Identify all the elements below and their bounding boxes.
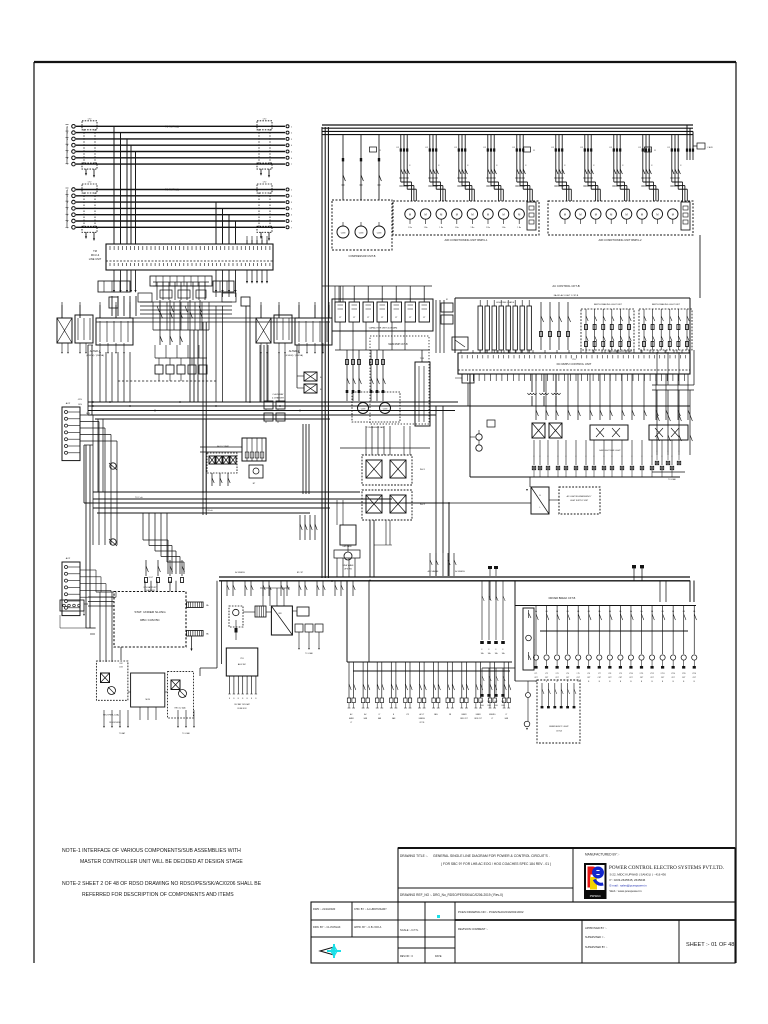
- svg-text:F: F: [547, 456, 548, 458]
- svg-text:F: F: [621, 456, 622, 458]
- svg-text:SUPERVISED I :-: SUPERVISED I :-: [585, 936, 605, 939]
- svg-text:ITU: ITU: [572, 359, 576, 361]
- svg-text:4: 4: [291, 208, 293, 210]
- svg-text:NA: NA: [206, 604, 209, 607]
- svg-text:FAN: FAN: [505, 717, 509, 720]
- svg-text:LT: LT: [491, 718, 493, 720]
- svg-text:PCES DRAWING NO :- PCES/SLD/: PCES DRAWING NO :- PCES/SLD/2019/2021/00…: [458, 910, 524, 914]
- svg-text:6: 6: [291, 221, 293, 223]
- svg-text:REV.NO : 0: REV.NO : 0: [400, 955, 413, 958]
- svg-text:LT2: LT2: [263, 118, 267, 120]
- svg-text:ALTER-2: ALTER-2: [289, 349, 300, 353]
- svg-text:F: F: [539, 456, 540, 458]
- svg-text:B: B: [229, 698, 230, 700]
- svg-text:B: B: [233, 698, 234, 700]
- svg-text:7: 7: [67, 164, 69, 166]
- svg-text:MCB: MCB: [145, 699, 150, 701]
- svg-text:16A: 16A: [502, 652, 506, 655]
- svg-text:AC CONTROL CKT-B: AC CONTROL CKT-B: [552, 284, 579, 288]
- svg-text:MCU &: MCU &: [91, 253, 100, 257]
- svg-text:ITU: ITU: [240, 658, 244, 660]
- svg-text:K1: K1: [397, 147, 400, 149]
- svg-text:LT13: LT13: [661, 673, 665, 675]
- svg-text:( FOR SBC 9? FOR LHB AC EOG /: ( FOR SBC 9? FOR LHB AC EOG / HOG COACHE…: [441, 862, 551, 866]
- svg-text:LT16: LT16: [692, 673, 696, 675]
- svg-text:B: B: [539, 495, 541, 497]
- svg-text:AC: AC: [350, 713, 353, 716]
- svg-text:110V: 110V: [78, 404, 83, 406]
- svg-text:DWN :- 21/10/2020: DWN :- 21/10/2020: [313, 907, 336, 911]
- svg-text:BRK CKT: BRK CKT: [460, 718, 467, 720]
- svg-text:LT11: LT11: [640, 673, 644, 675]
- svg-text:SUPERVISED BY :-: SUPERVISED BY :-: [585, 946, 607, 949]
- svg-text:LT12: LT12: [650, 673, 654, 675]
- svg-text:LIGHTING LOADS: LIGHTING LOADS: [496, 301, 515, 304]
- svg-text:M: M: [656, 213, 658, 217]
- svg-text:TO LOAD: TO LOAD: [182, 732, 191, 735]
- svg-text:EMERGENCY LIGHT: EMERGENCY LIGHT: [549, 726, 569, 728]
- svg-text:F: F: [622, 165, 624, 167]
- svg-text:AC CHARGE: AC CHARGE: [428, 570, 439, 573]
- svg-text:M: M: [487, 213, 489, 217]
- svg-text:6A: 6A: [619, 610, 622, 613]
- svg-text:CKT: CKT: [629, 677, 632, 679]
- svg-text:DRIVER BREAK CKT-B: DRIVER BREAK CKT-B: [549, 597, 576, 600]
- svg-text:F: F: [611, 456, 612, 458]
- svg-text:F: F: [603, 456, 604, 458]
- svg-text:AC: AC: [364, 713, 367, 716]
- svg-text:FN: FN: [449, 714, 452, 716]
- svg-text:16A: 16A: [488, 652, 492, 655]
- svg-text:6: 6: [291, 158, 293, 160]
- svg-text:F: F: [668, 451, 669, 453]
- svg-text:NOTE-2 SHEET 2 OF 48 OF RDSO: NOTE-2 SHEET 2 OF 48 OF RDSO DRAWING NO …: [62, 881, 262, 887]
- svg-text:DATE: DATE: [435, 955, 442, 958]
- svg-text:LT10: LT10: [629, 673, 633, 675]
- svg-text:LT6: LT6: [587, 673, 590, 675]
- svg-text:CKT: CKT: [545, 677, 548, 679]
- svg-text:MASTER CONTROLLER UNIT WILL B: MASTER CONTROLLER UNIT WILL BE DECIDED A…: [80, 859, 243, 865]
- svg-text:K1: K1: [484, 147, 487, 149]
- svg-text:LINE UNIT: LINE UNIT: [89, 257, 102, 261]
- svg-text:7: 7: [67, 227, 69, 229]
- svg-text:B2: B2: [320, 389, 323, 391]
- svg-text:CKT: CKT: [598, 677, 601, 679]
- svg-text:4: 4: [291, 145, 293, 147]
- svg-text:16A: 16A: [481, 652, 485, 655]
- svg-text:110V: 110V: [119, 667, 124, 669]
- svg-text:CT: CT: [409, 317, 412, 319]
- svg-text:APPROVED BY :-: APPROVED BY :-: [585, 926, 607, 930]
- svg-text:NOTE-1 INTERFACE OF VARIOUS CO: NOTE-1 INTERFACE OF VARIOUS COMPONENTS/S…: [62, 848, 241, 854]
- svg-text:2: 2: [291, 196, 293, 198]
- svg-text:3: 3: [291, 202, 293, 204]
- svg-text:INV: INV: [278, 613, 282, 615]
- svg-text:Web : www.pcespower.in: Web : www.pcespower.in: [610, 889, 642, 893]
- svg-text:B: B: [662, 681, 664, 683]
- svg-text:K1: K1: [513, 147, 516, 149]
- svg-text:F: F: [671, 456, 672, 458]
- svg-text:M: M: [503, 213, 505, 217]
- svg-text:LT1: LT1: [535, 673, 538, 675]
- svg-text:B: B: [393, 714, 395, 716]
- svg-text:FA+B2+AC LIGHT 1 CKT-B: FA+B2+AC LIGHT 1 CKT-B: [554, 294, 579, 297]
- svg-text:6A: 6A: [535, 610, 538, 613]
- svg-text:C1: C1: [379, 150, 381, 152]
- svg-text:LT14: LT14: [671, 673, 675, 675]
- svg-text:INV-1: INV-1: [420, 469, 426, 471]
- svg-text:CDM: CDM: [361, 409, 366, 411]
- svg-text:2: 2: [291, 133, 293, 135]
- svg-text:F: F: [657, 451, 658, 453]
- svg-text:S1: S1: [446, 299, 448, 301]
- svg-text:TM: TM: [93, 249, 97, 253]
- svg-text:24V: 24V: [119, 663, 123, 665]
- svg-text:M: M: [471, 213, 473, 217]
- svg-text:B2 CKT: B2 CKT: [297, 572, 304, 574]
- svg-text:CHD. BY :- A.LURDHUSAMY: CHD. BY :- A.LURDHUSAMY: [354, 908, 387, 911]
- svg-text:TO RMPU(1): TO RMPU(1): [165, 189, 179, 192]
- svg-text:NA: NA: [206, 633, 209, 636]
- svg-text:TO LOAD: TO LOAD: [305, 652, 314, 655]
- svg-text:CHG: CHG: [494, 705, 498, 707]
- svg-text:K1: K1: [552, 147, 555, 149]
- svg-text:ACP: ACP: [66, 402, 71, 405]
- svg-text:F: F: [564, 165, 566, 167]
- svg-text:F: F: [496, 165, 498, 167]
- svg-text:LT3: LT3: [406, 714, 409, 716]
- svg-text:F: F: [533, 456, 534, 458]
- svg-text:ACP: ACP: [66, 557, 71, 560]
- svg-text:AUX BC: AUX BC: [238, 663, 247, 666]
- svg-text:CAPACITOR UNIT (10KVAR): CAPACITOR UNIT (10KVAR): [369, 327, 398, 330]
- svg-text:GENERAL SINGLE LINE DIAGRAM FO: GENERAL SINGLE LINE DIAGRAM FOR POWER & …: [433, 854, 550, 858]
- svg-text:F: F: [496, 649, 497, 651]
- svg-text:B: B: [557, 681, 559, 683]
- svg-text:6A: 6A: [577, 610, 580, 613]
- svg-text:B: B: [630, 681, 632, 683]
- svg-text:POWER CONTROL ELECTRO SYSTEMS: POWER CONTROL ELECTRO SYSTEMS PVT.LTD.: [609, 865, 724, 871]
- svg-text:B: B: [694, 681, 696, 683]
- svg-text:K1: K1: [455, 147, 458, 149]
- svg-text:RECTIFIER-1 (5A): RECTIFIER-1 (5A): [103, 714, 119, 717]
- svg-text:AC LT: AC LT: [419, 713, 424, 716]
- svg-text:PSPWAC: PSPWAC: [590, 894, 601, 898]
- svg-text:CHG: CHG: [487, 705, 491, 707]
- svg-text:K1: K1: [426, 147, 429, 149]
- svg-text:K1: K1: [581, 147, 584, 149]
- svg-text:APPD. BY :- C.B.J DO.A: APPD. BY :- C.B.J DO.A: [354, 926, 382, 929]
- svg-text:F: F: [651, 456, 652, 458]
- svg-text:CKT: CKT: [577, 677, 580, 679]
- svg-text:CKT: CKT: [534, 677, 537, 679]
- svg-text:5: 5: [291, 215, 293, 217]
- svg-text:CDM: CDM: [383, 409, 388, 411]
- svg-text:K B T: K B T: [149, 577, 154, 579]
- svg-text:CDM: CDM: [359, 233, 364, 235]
- svg-text:B: B: [546, 681, 548, 683]
- svg-text:F: F: [489, 649, 490, 651]
- svg-text:REFERRED FOR DESCRIPTION OF C: REFERRED FOR DESCRIPTION OF COMPONENTS A…: [82, 892, 234, 898]
- svg-text:M: M: [672, 213, 674, 217]
- svg-text:CKT: CKT: [671, 677, 674, 679]
- svg-text:CT: CT: [381, 317, 384, 319]
- svg-text:F: F: [680, 165, 682, 167]
- svg-text:CKT: CKT: [608, 677, 611, 679]
- svg-text:B: B: [673, 681, 675, 683]
- svg-text:7: 7: [291, 227, 293, 229]
- svg-text:1: 1: [291, 190, 293, 192]
- svg-text:M: M: [626, 213, 628, 217]
- svg-text:RBC CUM BC: RBC CUM BC: [140, 618, 160, 622]
- svg-text:B: B: [609, 681, 611, 683]
- svg-text:CDM: CDM: [341, 233, 346, 235]
- svg-text:6A: 6A: [662, 610, 665, 613]
- svg-text:LT8: LT8: [608, 673, 611, 675]
- svg-text:(4.5KW) / (25KVA): (4.5KW) / (25KVA): [86, 354, 104, 357]
- svg-text:TO RMPU(1): TO RMPU(1): [165, 125, 179, 128]
- svg-text:M: M: [425, 213, 427, 217]
- svg-text:F: F: [409, 165, 411, 167]
- svg-text:C1: C1: [654, 150, 656, 152]
- svg-text:LT: LT: [505, 714, 507, 716]
- svg-text:CT: CT: [367, 317, 370, 319]
- svg-text:FAN+LIGHT SUPPLY UNIT: FAN+LIGHT SUPPLY UNIT: [608, 350, 633, 353]
- svg-text:S-22, MIDC KUPWAD ( SANGLI ) -: S-22, MIDC KUPWAD ( SANGLI ) - 416 436: [610, 873, 667, 877]
- svg-text:B: B: [242, 698, 243, 700]
- svg-text:LT15: LT15: [682, 673, 686, 675]
- svg-text:16A: 16A: [495, 652, 499, 655]
- svg-text:F: F: [482, 649, 483, 651]
- svg-text:EMER: EMER: [349, 718, 355, 720]
- svg-text:LT: LT: [350, 722, 352, 724]
- svg-text:6A: 6A: [672, 610, 675, 613]
- svg-text:F: F: [585, 456, 586, 458]
- svg-text:LT2: LT2: [88, 182, 92, 184]
- svg-text:C AUX: C AUX: [707, 146, 713, 149]
- svg-text:F: F: [503, 649, 504, 651]
- svg-text:CDM: CDM: [377, 233, 382, 235]
- svg-text:1 Ba: 1 Ba: [471, 227, 475, 229]
- svg-text:LT9: LT9: [619, 673, 622, 675]
- svg-text:CKT: CKT: [555, 677, 558, 679]
- svg-text:E-mail : sales@pcespower.in: E-mail : sales@pcespower.in: [610, 884, 648, 888]
- svg-text:B: B: [651, 681, 653, 683]
- svg-text:BERTH READING LIGHT UNIT: BERTH READING LIGHT UNIT: [652, 303, 681, 306]
- svg-text:1 Ba: 1 Ba: [408, 227, 412, 229]
- svg-text:FAN: FAN: [378, 717, 382, 720]
- svg-text:LT3: LT3: [556, 673, 559, 675]
- svg-text:AIR CONDITIONING UNIT RMPU-1: AIR CONDITIONING UNIT RMPU-1: [444, 238, 488, 242]
- svg-text:F: F: [651, 165, 653, 167]
- svg-text:CT: CT: [339, 317, 342, 319]
- svg-text:FAN LIGHT FAN LIGHT: FAN LIGHT FAN LIGHT: [599, 449, 621, 452]
- svg-text:B: B: [567, 681, 569, 683]
- svg-text:6A: 6A: [641, 610, 644, 613]
- svg-text:FAN: FAN: [364, 717, 368, 720]
- svg-text:C AUX BAT: C AUX BAT: [272, 393, 284, 396]
- svg-text:6A: 6A: [683, 610, 686, 613]
- svg-text:B: B: [588, 681, 590, 683]
- svg-text:1 Ba: 1 Ba: [455, 227, 459, 229]
- svg-text:F: F: [661, 456, 662, 458]
- svg-text:CKT: CKT: [640, 677, 643, 679]
- svg-text:CKT: CKT: [619, 677, 622, 679]
- svg-text:CKT: CKT: [693, 677, 696, 679]
- svg-text:(4.5KW) / (25KVA): (4.5KW) / (25KVA): [285, 354, 303, 357]
- svg-text:CT: CT: [395, 317, 398, 319]
- svg-text:M: M: [564, 213, 566, 217]
- svg-text:B: B: [247, 698, 248, 700]
- svg-text:415V: 415V: [78, 399, 83, 401]
- svg-text:F: F: [593, 165, 595, 167]
- svg-text:BT: BT: [253, 483, 256, 485]
- svg-text:6A: 6A: [693, 610, 696, 613]
- svg-text:F: F: [557, 456, 558, 458]
- svg-text:B: B: [255, 698, 256, 700]
- svg-text:LT2: LT2: [545, 673, 548, 675]
- svg-text:3: 3: [291, 139, 293, 141]
- svg-text:SINE WAVE: SINE WAVE: [343, 564, 355, 567]
- svg-text:TO LOAD: TO LOAD: [668, 478, 677, 481]
- svg-text:BAT: BAT: [502, 700, 505, 703]
- svg-text:DRAWING REF_NO :- DRG_No_RDS: DRAWING REF_NO :- DRG_No_RDSO/PES/SK/AC/…: [400, 893, 503, 897]
- svg-text:K1: K1: [610, 147, 613, 149]
- svg-text:B: B: [620, 681, 622, 683]
- svg-text:CONDENSER FAN: CONDENSER FAN: [366, 426, 384, 429]
- svg-text:SHEET :- 01 OF 48: SHEET :- 01 OF 48: [686, 942, 734, 948]
- svg-text:LT2: LT2: [263, 182, 267, 184]
- svg-text:LT5: LT5: [577, 673, 580, 675]
- svg-text:INV-2: INV-2: [420, 504, 426, 506]
- svg-text:COMPRESSOR UNIT-B: COMPRESSOR UNIT-B: [349, 255, 376, 258]
- svg-text:FUSE BOX: FUSE BOX: [237, 708, 247, 710]
- svg-text:CT: CT: [353, 317, 356, 319]
- svg-text:AC LIGHTING EMERGENCY: AC LIGHTING EMERGENCY: [567, 495, 593, 498]
- svg-text:6A: 6A: [651, 610, 654, 613]
- svg-text:B: B: [683, 681, 685, 683]
- svg-text:EMER: EMER: [476, 714, 482, 716]
- svg-text:M: M: [641, 213, 643, 217]
- svg-text:6A: 6A: [567, 610, 570, 613]
- svg-text:EMER: EMER: [462, 714, 468, 716]
- svg-text:M: M: [456, 213, 458, 217]
- svg-text:B: B: [641, 681, 643, 683]
- svg-text:F: F: [565, 456, 566, 458]
- svg-text:LIGHT SUPPLY UNIT: LIGHT SUPPLY UNIT: [570, 500, 589, 502]
- svg-text:M: M: [518, 213, 520, 217]
- svg-text:B: B: [578, 681, 580, 683]
- svg-text:6A: 6A: [556, 610, 559, 613]
- svg-text:CHG: CHG: [501, 705, 505, 707]
- svg-text:1 Ba: 1 Ba: [439, 227, 443, 229]
- svg-text:6A: 6A: [588, 610, 591, 613]
- svg-text:DRN. BY :- CL.PATHAK: DRN. BY :- CL.PATHAK: [313, 925, 341, 929]
- svg-text:K1: K1: [668, 147, 671, 149]
- svg-text:EMERG: EMERG: [419, 718, 426, 720]
- svg-text:6A: 6A: [630, 610, 633, 613]
- svg-text:F: F: [641, 456, 642, 458]
- svg-text:7: 7: [291, 164, 293, 166]
- svg-text:1 Ba: 1 Ba: [502, 227, 506, 229]
- svg-text:AUX COMP: AUX COMP: [217, 445, 229, 448]
- svg-text:LT4: LT4: [566, 673, 569, 675]
- svg-text:1 Ba: 1 Ba: [486, 227, 490, 229]
- svg-text:LT: LT: [379, 714, 381, 716]
- svg-text:DRAWING TITLE :-: DRAWING TITLE :-: [400, 854, 428, 858]
- svg-text:1 Ba: 1 Ba: [517, 227, 521, 229]
- svg-text:B: B: [251, 698, 252, 700]
- svg-text:CT: CT: [423, 317, 426, 319]
- svg-text:M: M: [610, 213, 612, 217]
- svg-text:BERTH READING LIGHT UNIT: BERTH READING LIGHT UNIT: [594, 303, 623, 306]
- svg-text:F: F: [575, 456, 576, 458]
- svg-text:B1: B1: [320, 377, 323, 379]
- svg-text:F: F: [631, 456, 632, 458]
- svg-text:AC EMERG: AC EMERG: [235, 571, 245, 574]
- svg-text:TO BAT: TO BAT: [119, 732, 126, 735]
- svg-text:B: B: [599, 681, 601, 683]
- svg-text:K1: K1: [639, 147, 642, 149]
- svg-text:LT7: LT7: [598, 673, 601, 675]
- svg-text:F: F: [593, 456, 594, 458]
- svg-text:P : 0233-2645545, 2645646: P : 0233-2645545, 2645646: [610, 878, 646, 882]
- svg-text:CKT: CKT: [566, 677, 569, 679]
- svg-text:CKT: CKT: [587, 677, 590, 679]
- svg-text:CKT: CKT: [682, 677, 685, 679]
- svg-text:CKT: CKT: [650, 677, 653, 679]
- svg-text:BRK CKT: BRK CKT: [475, 718, 482, 720]
- svg-text:F: F: [467, 165, 469, 167]
- svg-text:CHG: CHG: [480, 705, 484, 707]
- svg-text:6A: 6A: [609, 610, 612, 613]
- svg-text:FAN: FAN: [434, 713, 438, 716]
- svg-text:M: M: [579, 213, 581, 217]
- svg-text:RECT-2 (5A): RECT-2 (5A): [175, 707, 186, 710]
- svg-text:L: L: [534, 639, 535, 641]
- svg-text:1 Ba: 1 Ba: [424, 227, 428, 229]
- svg-text:CKT B: CKT B: [419, 722, 425, 724]
- svg-text:F: F: [438, 165, 440, 167]
- svg-text:24V BATTERY: 24V BATTERY: [143, 586, 157, 589]
- svg-text:6A: 6A: [598, 610, 601, 613]
- svg-text:M: M: [409, 213, 411, 217]
- svg-text:M: M: [440, 213, 442, 217]
- svg-text:6A: 6A: [546, 610, 549, 613]
- svg-text:1: 1: [291, 126, 293, 128]
- svg-text:AC EMERG: AC EMERG: [455, 570, 465, 573]
- svg-text:M: M: [595, 213, 597, 217]
- svg-text:C1: C1: [533, 150, 535, 152]
- svg-text:CKT-B: CKT-B: [556, 731, 563, 733]
- svg-text:5: 5: [291, 152, 293, 154]
- svg-text:LT2: LT2: [88, 118, 92, 120]
- svg-text:TO 2 ckt: TO 2 ckt: [135, 496, 143, 499]
- svg-text:REVISION COMMENT :-: REVISION COMMENT :-: [458, 927, 488, 931]
- svg-text:24V BAT 110V BAT: 24V BAT 110V BAT: [234, 703, 250, 706]
- svg-text:ALTER-1: ALTER-1: [90, 349, 101, 353]
- svg-text:UPS INV: UPS INV: [344, 569, 353, 571]
- svg-text:L: L: [539, 507, 540, 509]
- svg-text:AIR CONDITIONING UNIT RMPU-2: AIR CONDITIONING UNIT RMPU-2: [598, 238, 642, 242]
- svg-text:F: F: [679, 451, 680, 453]
- svg-text:SCALE :- N.T.S.: SCALE :- N.T.S.: [400, 928, 419, 932]
- svg-text:B: B: [238, 698, 239, 700]
- svg-text:F: F: [525, 165, 527, 167]
- svg-text:EMERG: EMERG: [489, 714, 496, 716]
- svg-text:MANUFACTURED BY :-: MANUFACTURED BY :-: [585, 853, 619, 857]
- svg-text:& CHARGER: & CHARGER: [272, 397, 284, 400]
